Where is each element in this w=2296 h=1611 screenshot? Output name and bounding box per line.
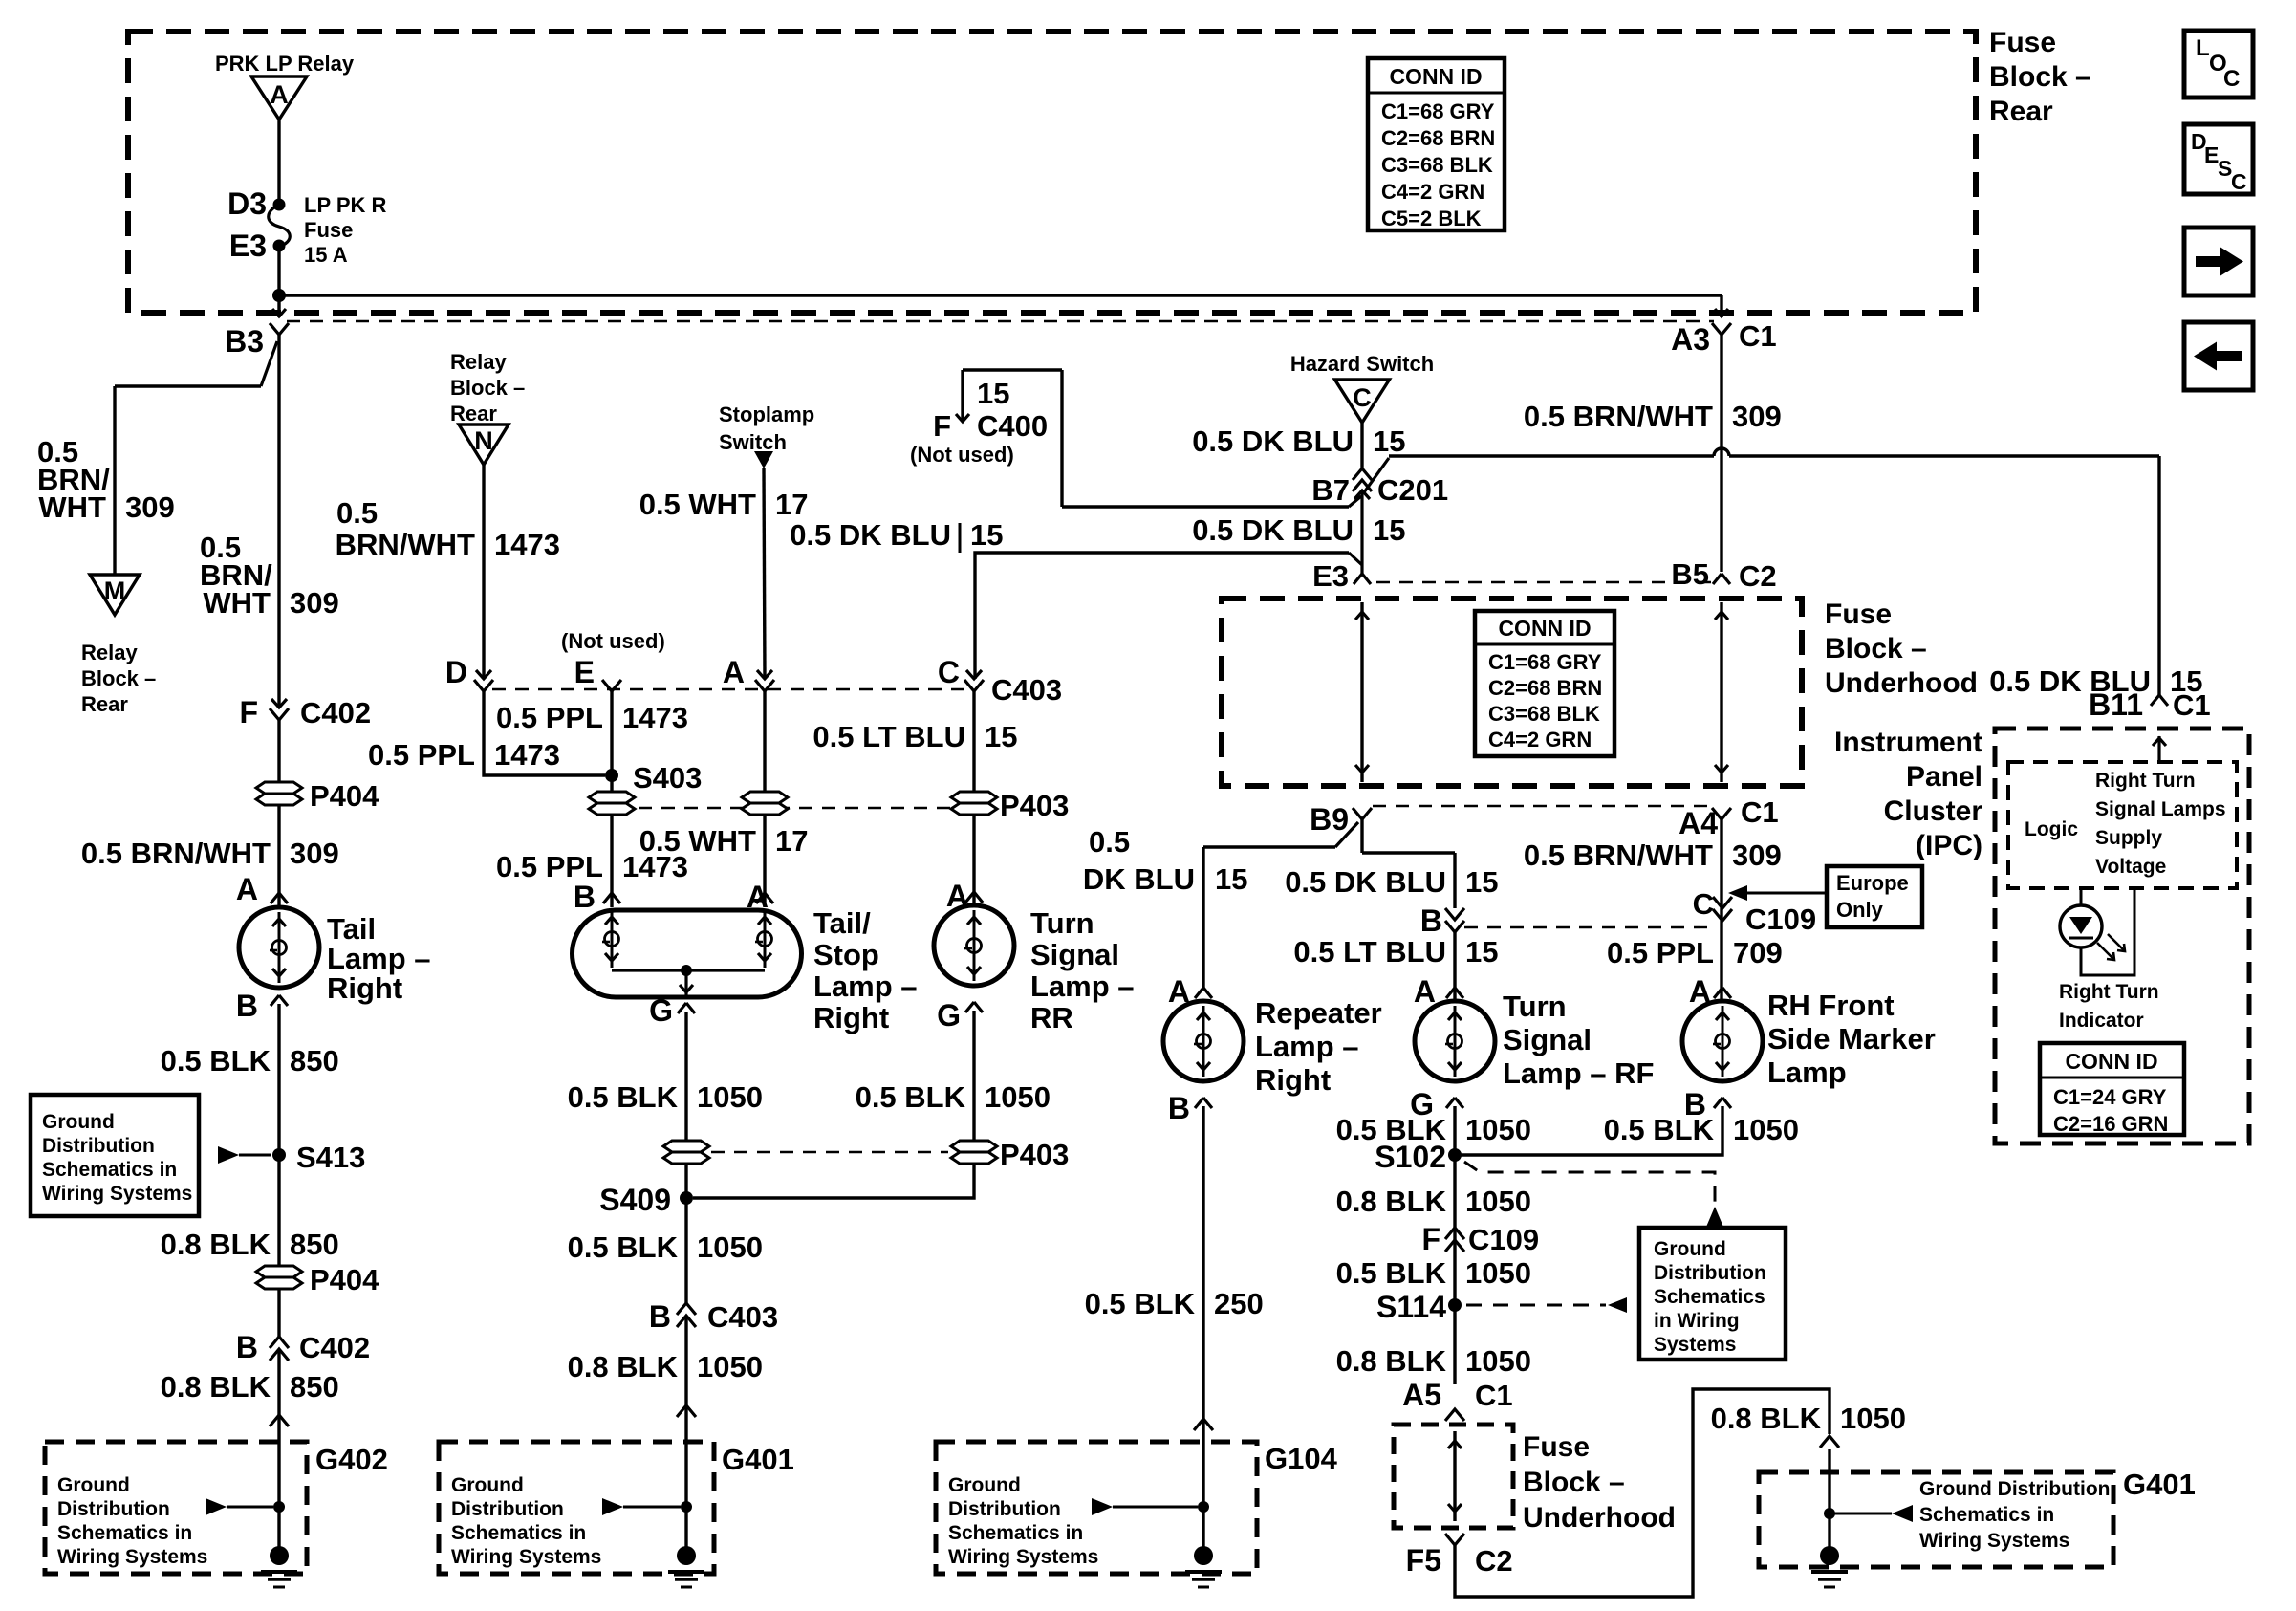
pin G turn RF	[1410, 1087, 1463, 1121]
svg-text:B: B	[236, 1330, 258, 1364]
svg-text:15: 15	[1373, 513, 1405, 547]
svg-text:Lamp –: Lamp –	[1030, 969, 1135, 1003]
svg-text:0.5: 0.5	[1089, 825, 1130, 859]
svg-text:Logic: Logic	[2025, 818, 2078, 840]
svg-text:0.5 DK BLU: 0.5 DK BLU	[790, 518, 951, 552]
svg-text:PRK LP Relay: PRK LP Relay	[215, 52, 355, 76]
svg-text:Europe: Europe	[1836, 871, 1909, 895]
svg-text:0.8 BLK: 0.8 BLK	[568, 1350, 679, 1383]
wire branch horizontal	[115, 384, 261, 387]
svg-text:G402: G402	[315, 1443, 388, 1476]
svg-text:in Wiring: in Wiring	[1654, 1310, 1740, 1332]
connector B11 C1	[2089, 687, 2211, 722]
connector pin C C403	[938, 655, 1062, 707]
svg-text:0.8 BLK: 0.8 BLK	[161, 1370, 271, 1404]
fuse block - rear (dashed enclosure)	[128, 32, 1976, 313]
wire relay A to fuse D3	[277, 120, 280, 205]
relay PRK LP Relay label	[215, 52, 355, 76]
svg-text:1050: 1050	[1465, 1256, 1531, 1290]
svg-text:A: A	[270, 80, 289, 109]
svg-text:0.5 BLK: 0.5 BLK	[568, 1080, 679, 1114]
wire exit right with arrow	[1715, 295, 1728, 317]
connector pin A C403	[723, 655, 774, 691]
wire RF G to S102	[1453, 1106, 1456, 1155]
svg-text:A: A	[236, 872, 258, 906]
svg-text:Ground: Ground	[451, 1474, 524, 1496]
label Relay Block - Rear (N)	[450, 350, 525, 425]
svg-text:G104: G104	[1265, 1442, 1338, 1475]
svg-text:Cluster: Cluster	[1884, 795, 1983, 827]
svg-text:CONN ID: CONN ID	[1389, 64, 1482, 89]
svg-text:D3: D3	[227, 186, 267, 221]
wire marker B to S102	[1455, 1106, 1722, 1155]
label 0.5 DK BLU 15 (RF)	[1285, 865, 1498, 899]
label Instrument Panel Cluster (IPC)	[1834, 727, 1982, 861]
wire exit left with arrow	[272, 295, 286, 317]
wire C400 branch up	[1060, 370, 1063, 507]
label Tail Lamp - Right	[327, 912, 431, 1005]
svg-text:F: F	[239, 695, 258, 729]
svg-text:Wiring Systems: Wiring Systems	[1919, 1530, 2069, 1552]
svg-text:15: 15	[1215, 862, 1247, 896]
label Logic	[2025, 818, 2078, 840]
svg-text:0.5 BLK: 0.5 BLK	[1085, 1287, 1196, 1320]
svg-text:Right Turn: Right Turn	[2059, 981, 2159, 1003]
svg-text:1050: 1050	[985, 1080, 1051, 1114]
connector C C109	[1693, 887, 1817, 936]
svg-text:Supply: Supply	[2095, 827, 2162, 849]
svg-text:Schematics in: Schematics in	[57, 1522, 192, 1544]
wire stoplamp switch down	[764, 468, 765, 679]
wire to repeater horizontal	[1203, 845, 1335, 848]
ground G401 left	[668, 1546, 704, 1587]
wire B7 diagonal up right	[1364, 458, 1389, 492]
label Relay Block - Rear (M)	[81, 641, 156, 716]
connector into G402	[270, 1415, 289, 1426]
wire logic to LED	[2080, 888, 2083, 906]
connector C1 dashed interface row	[287, 320, 1714, 322]
svg-text:Rear: Rear	[81, 692, 128, 716]
label Right Turn Signal Lamps Supply Voltage	[2095, 770, 2226, 878]
svg-text:1050: 1050	[1465, 1185, 1531, 1218]
prev-page arrow box	[2184, 322, 2253, 390]
svg-text:309: 309	[290, 586, 339, 620]
svg-text:C3=68 BLK: C3=68 BLK	[1381, 153, 1493, 177]
G104 reference arrow	[1092, 1498, 1198, 1515]
svg-text:WHT: WHT	[38, 490, 106, 524]
svg-text:C201: C201	[1377, 473, 1448, 507]
label 0.5 DK BLU 15 (E3 branch)	[790, 518, 1003, 553]
label Fuse Block - Underhood	[1825, 599, 1978, 699]
svg-text:C2=68 BRN: C2=68 BRN	[1488, 676, 1602, 700]
svg-text:Fuse: Fuse	[1523, 1431, 1590, 1463]
svg-text:1050: 1050	[1840, 1402, 1906, 1435]
label 0.5 BRN/WHT 309 (main)	[200, 531, 339, 620]
wire P404 to C402 B	[277, 1289, 280, 1337]
ground box G401 (left)	[439, 1442, 794, 1574]
wire E down to S403	[610, 691, 613, 775]
label 0.8 BLK 850 (lower)	[161, 1370, 339, 1404]
svg-text:17: 17	[775, 488, 808, 521]
svg-text:Right: Right	[1255, 1063, 1331, 1097]
wire C down to lamp	[972, 691, 975, 905]
CONN ID table (IPC)	[2040, 1043, 2184, 1136]
wire A down to lamp	[763, 691, 766, 907]
grommet dashed link row	[639, 807, 950, 809]
pin G tail/stop	[649, 993, 695, 1028]
wire hop to IPC corner	[1729, 454, 2159, 457]
svg-text:0.5 BRN/WHT: 0.5 BRN/WHT	[81, 837, 271, 870]
wire S102 to S114	[1453, 1155, 1456, 1384]
svg-text:0.5 DK BLU: 0.5 DK BLU	[1192, 425, 1354, 458]
tail/stop exit	[680, 970, 693, 997]
svg-text:Fuse: Fuse	[1825, 599, 1892, 630]
svg-text:C1=68 GRY: C1=68 GRY	[1488, 650, 1602, 674]
label 0.5 LT BLU 15	[1293, 935, 1498, 969]
grommet P403 (upper)	[951, 789, 1069, 822]
ground box G402	[45, 1442, 388, 1574]
lamp Repeater Lamp - Right	[1163, 1001, 1244, 1081]
pin A turn signal lamp RR	[946, 879, 983, 913]
connector B C109	[1420, 903, 1464, 938]
wire into G401R	[1828, 1449, 1830, 1556]
label 0.5 LT BLU 15	[812, 720, 1017, 753]
svg-text:Block –: Block –	[81, 666, 156, 690]
DESC legend box	[2184, 124, 2253, 194]
svg-text:B9: B9	[1310, 802, 1349, 837]
svg-text:Underhood: Underhood	[1523, 1502, 1676, 1534]
svg-text:Wiring Systems: Wiring Systems	[42, 1183, 192, 1205]
svg-text:309: 309	[1732, 838, 1782, 872]
svg-text:Indicator: Indicator	[2059, 1010, 2144, 1032]
svg-text:Ground Distribution: Ground Distribution	[1919, 1478, 2110, 1500]
svg-text:E3: E3	[1312, 559, 1349, 593]
svg-text:1473: 1473	[494, 528, 560, 561]
svg-text:0.5 BLK: 0.5 BLK	[1336, 1256, 1447, 1290]
svg-text:C: C	[2231, 169, 2247, 194]
svg-text:Distribution: Distribution	[451, 1498, 564, 1520]
lamp Turn Signal Lamp - RF	[1415, 1001, 1495, 1081]
node E3 (fuse)	[229, 229, 286, 263]
svg-text:E3: E3	[229, 229, 267, 263]
label 0.5 DK BLU 15 (IPC feed)	[1989, 664, 2202, 698]
svg-text:1050: 1050	[1733, 1113, 1799, 1146]
G401L reference arrow	[602, 1498, 681, 1515]
connector into G401	[677, 1405, 696, 1417]
wire fuse output bus to right	[279, 294, 1722, 296]
connector E3 (underhood)	[1312, 559, 1371, 593]
svg-text:Switch: Switch	[719, 430, 787, 454]
svg-text:B3: B3	[225, 324, 264, 359]
svg-text:Block –: Block –	[1523, 1467, 1625, 1498]
svg-text:B: B	[236, 989, 258, 1023]
label 0.5 BRN/WHT 309 (branch)	[37, 435, 175, 524]
svg-text:0.5 BRN/WHT: 0.5 BRN/WHT	[1524, 838, 1713, 872]
svg-text:Hazard Switch: Hazard Switch	[1290, 352, 1434, 376]
svg-text:15: 15	[1373, 425, 1405, 458]
wire F5 to G401 right	[1455, 1389, 1830, 1597]
svg-text:F: F	[1421, 1222, 1440, 1256]
svg-text:Ground: Ground	[1654, 1238, 1726, 1260]
wire below B7	[1360, 490, 1363, 575]
svg-text:RR: RR	[1030, 1001, 1073, 1034]
svg-text:P404: P404	[310, 1263, 379, 1296]
svg-text:C402: C402	[299, 1331, 370, 1364]
svg-text:Lamp –: Lamp –	[813, 969, 918, 1003]
relay PRK LP Relay triangle A	[251, 76, 307, 120]
svg-text:Signal Lamps: Signal Lamps	[2095, 798, 2226, 820]
lamp Turn Signal Lamp - RR	[934, 905, 1014, 986]
svg-text:Repeater: Repeater	[1255, 996, 1382, 1030]
svg-text:C2=68 BRN: C2=68 BRN	[1381, 126, 1495, 150]
svg-text:S102: S102	[1375, 1140, 1446, 1174]
svg-text:F: F	[933, 409, 951, 443]
tail/stop filament B	[602, 910, 619, 968]
wire repeater down	[1202, 847, 1204, 988]
svg-text:C5=2 BLK: C5=2 BLK	[1381, 207, 1482, 230]
label 0.5 PPL 709	[1607, 936, 1783, 969]
svg-text:Lamp: Lamp	[1767, 1056, 1847, 1089]
S102 dashed reference	[1464, 1162, 1723, 1226]
label 0.5 BLK 1050 (marker)	[1604, 1113, 1799, 1146]
svg-text:C109: C109	[1745, 903, 1816, 936]
wire E3 down to junction	[277, 246, 280, 295]
connector B C403 (lower)	[649, 1299, 778, 1334]
connector A5 C1	[1402, 1378, 1513, 1421]
wire tail lamp B down	[277, 1004, 280, 1272]
label 0.5 DK BLU 15 (repeater)	[1083, 825, 1248, 896]
svg-text:C2: C2	[1739, 559, 1777, 593]
label 0.5 BRN/WHT 1473	[336, 496, 560, 561]
underhood pass-through arrow	[1448, 1431, 1462, 1521]
svg-text:G: G	[649, 993, 673, 1028]
svg-text:1050: 1050	[1465, 1344, 1531, 1378]
svg-text:S403: S403	[633, 761, 702, 795]
CONN ID table (fuse block rear)	[1368, 58, 1505, 230]
pin B tail lamp	[236, 989, 288, 1023]
pin A repeater	[1168, 974, 1212, 1009]
svg-text:LP PK R: LP PK R	[304, 193, 387, 217]
node S413	[272, 1141, 365, 1174]
svg-text:C1=24 GRY: C1=24 GRY	[2053, 1085, 2167, 1109]
wire P404 to tail lamp	[277, 805, 280, 907]
label Turn Signal Lamp - RR	[1030, 906, 1135, 1034]
svg-text:Ground: Ground	[948, 1474, 1021, 1496]
connector F5 C2	[1406, 1534, 1513, 1578]
wire S403 through grommet to lamp	[610, 775, 613, 907]
lamp Tail/Stop Lamp - Right (body)	[573, 910, 802, 997]
wire tail/stop G down	[684, 1012, 687, 1303]
svg-text:Instrument: Instrument	[1834, 727, 1982, 758]
svg-text:0.8 BLK: 0.8 BLK	[1336, 1185, 1447, 1218]
node S403	[605, 761, 702, 795]
wire C400 branch horizontal	[1062, 505, 1349, 508]
svg-text:0.5 BLK: 0.5 BLK	[568, 1230, 679, 1264]
svg-text:P403: P403	[1000, 1138, 1069, 1171]
node S102	[1375, 1140, 1462, 1174]
svg-text:C403: C403	[991, 673, 1062, 707]
svg-text:S413: S413	[296, 1141, 365, 1174]
svg-text:Lamp –: Lamp –	[1255, 1030, 1359, 1063]
label Turn Signal Lamp - RF	[1503, 990, 1654, 1090]
label Tail/Stop Lamp - Right	[813, 906, 918, 1034]
fuse block underhood (bottom box)	[1394, 1425, 1513, 1528]
svg-text:BRN/WHT: BRN/WHT	[336, 528, 475, 561]
svg-text:CONN ID: CONN ID	[2065, 1049, 2157, 1074]
label (Not used) C400	[910, 443, 1014, 467]
wire B9 down	[1360, 819, 1363, 853]
svg-text:C109: C109	[1468, 1223, 1539, 1256]
label 0.8 BLK 850	[161, 1228, 339, 1261]
svg-text:Distribution: Distribution	[57, 1498, 170, 1520]
label Repeater Lamp - Right	[1255, 996, 1382, 1097]
svg-text:A5: A5	[1402, 1378, 1441, 1412]
G401R junction	[1824, 1508, 1835, 1519]
svg-text:D: D	[445, 655, 467, 689]
svg-text:Distribution: Distribution	[948, 1498, 1061, 1520]
svg-text:C4=2 GRN: C4=2 GRN	[1381, 180, 1484, 204]
svg-text:Wiring Systems: Wiring Systems	[57, 1546, 207, 1568]
svg-text:709: 709	[1733, 936, 1783, 969]
svg-text:N: N	[474, 426, 493, 455]
svg-text:Systems: Systems	[1654, 1334, 1736, 1356]
svg-text:C: C	[938, 655, 960, 689]
svg-text:15: 15	[1465, 935, 1498, 969]
svg-text:A: A	[723, 655, 745, 689]
S114 dashed reference	[1466, 1297, 1627, 1313]
svg-text:Fuse: Fuse	[304, 218, 353, 242]
svg-text:Schematics in: Schematics in	[948, 1522, 1083, 1544]
svg-text:Turn: Turn	[1030, 906, 1094, 940]
pin A side marker	[1689, 974, 1731, 1009]
svg-text:850: 850	[290, 1044, 339, 1078]
svg-text:CONN ID: CONN ID	[1498, 616, 1591, 641]
wire branch diagonal to relay M	[261, 341, 277, 386]
europe only arrow	[1728, 885, 1827, 901]
pin A tail lamp	[236, 872, 288, 906]
svg-text:C1: C1	[2173, 688, 2211, 722]
svg-text:Tail: Tail	[327, 912, 376, 946]
svg-text:0.5 PPL: 0.5 PPL	[496, 850, 603, 883]
wire C403 B down	[684, 1316, 687, 1556]
wire down to B11	[2157, 456, 2160, 695]
svg-text:Tail/: Tail/	[813, 906, 871, 940]
svg-text:WHT: WHT	[203, 586, 271, 620]
svg-text:Voltage: Voltage	[2095, 856, 2166, 878]
svg-text:Wiring Systems: Wiring Systems	[948, 1546, 1098, 1568]
label 0.5 PPL 1473 (E)	[496, 701, 688, 734]
IPC outer dashed box	[1995, 729, 2249, 1143]
LED right turn indicator	[2060, 905, 2102, 947]
svg-text:S409: S409	[599, 1183, 671, 1217]
svg-text:309: 309	[290, 837, 339, 870]
svg-text:0.5 BLK: 0.5 BLK	[1604, 1113, 1715, 1146]
svg-text:Relay: Relay	[450, 350, 507, 374]
lamp Tail Lamp - Right	[239, 907, 319, 988]
connector pin D C403	[445, 655, 493, 691]
grommet P404 (lower)	[256, 1263, 379, 1296]
svg-text:15: 15	[985, 720, 1017, 753]
svg-text:C1: C1	[1739, 319, 1777, 353]
svg-text:250: 250	[1214, 1287, 1264, 1320]
G104 text	[948, 1474, 1098, 1568]
wire A3 down to B5	[1720, 335, 1722, 572]
stoplamp switch (triangle)	[754, 451, 773, 468]
CONN ID table (underhood)	[1475, 611, 1614, 756]
svg-text:Stop: Stop	[813, 938, 879, 971]
svg-text:Block –: Block –	[450, 376, 525, 400]
ground G401 right	[1811, 1546, 1848, 1587]
label 0.5 BLK 1050 (below S409)	[568, 1230, 763, 1264]
svg-text:A: A	[1414, 974, 1436, 1009]
svg-text:Schematics in: Schematics in	[451, 1522, 586, 1544]
svg-text:Schematics in: Schematics in	[1919, 1504, 2054, 1526]
reference arrow to S413	[218, 1146, 271, 1164]
wire C402 B down	[277, 1349, 280, 1556]
svg-text:G401: G401	[2123, 1468, 2196, 1501]
svg-text:C2=16 GRN: C2=16 GRN	[2053, 1112, 2168, 1136]
svg-text:B: B	[574, 880, 596, 914]
connector into G104	[1194, 1419, 1213, 1430]
grommet P403 (lower)	[951, 1138, 1069, 1171]
svg-text:Lamp –: Lamp –	[327, 942, 431, 975]
svg-text:Ground: Ground	[42, 1111, 115, 1133]
svg-text:0.5 WHT: 0.5 WHT	[639, 488, 756, 521]
svg-text:C3=68 BLK: C3=68 BLK	[1488, 702, 1600, 726]
LOC legend box	[2184, 31, 2253, 98]
svg-text:P403: P403	[1000, 789, 1069, 822]
label Right Turn Indicator	[2059, 981, 2159, 1032]
fuse block - underhood (dashed)	[1222, 599, 1802, 786]
connector B7 C201	[1311, 468, 1448, 507]
svg-text:0.5 DK BLU: 0.5 DK BLU	[1285, 865, 1446, 899]
G401R reference arrow	[1830, 1505, 1913, 1522]
G402 text	[57, 1474, 207, 1568]
node S114	[1376, 1290, 1462, 1324]
label 0.5 PPL 1473 (lower)	[496, 850, 688, 883]
svg-text:C: C	[2223, 66, 2240, 92]
svg-text:15: 15	[970, 518, 1003, 552]
next-page arrow box	[2184, 228, 2253, 295]
svg-text:F5: F5	[1406, 1543, 1441, 1578]
svg-text:Fuse: Fuse	[1989, 27, 2056, 58]
svg-text:15 A: 15 A	[304, 243, 348, 267]
svg-text:15: 15	[977, 377, 1009, 410]
pin G turn RR	[937, 998, 983, 1033]
label Stoplamp Switch	[719, 403, 814, 454]
G402 reference arrow	[206, 1498, 273, 1515]
svg-text:B11: B11	[2089, 687, 2143, 722]
svg-text:Signal: Signal	[1503, 1023, 1592, 1056]
ground G402	[261, 1546, 297, 1587]
lamp RH Front Side Marker	[1682, 1001, 1763, 1081]
node D3	[227, 186, 285, 221]
svg-text:C402: C402	[300, 696, 371, 729]
label 0.5 BLK 250	[1085, 1287, 1264, 1320]
svg-text:Relay: Relay	[81, 641, 138, 664]
svg-text:C403: C403	[707, 1300, 778, 1334]
svg-text:C4=2 GRN: C4=2 GRN	[1488, 728, 1592, 751]
pin A tail/stop lamp	[747, 880, 773, 914]
svg-text:850: 850	[290, 1370, 339, 1404]
dashed row E3-B5	[1376, 581, 1711, 583]
G402 junction	[273, 1501, 285, 1513]
wire B3 down to C402	[277, 335, 280, 708]
fuse LP PK R 15A (element)	[269, 205, 291, 247]
svg-text:17: 17	[775, 824, 808, 858]
label 0.5 PPL 1473 (D)	[368, 738, 560, 772]
ground box G401 (right)	[1759, 1468, 2196, 1567]
